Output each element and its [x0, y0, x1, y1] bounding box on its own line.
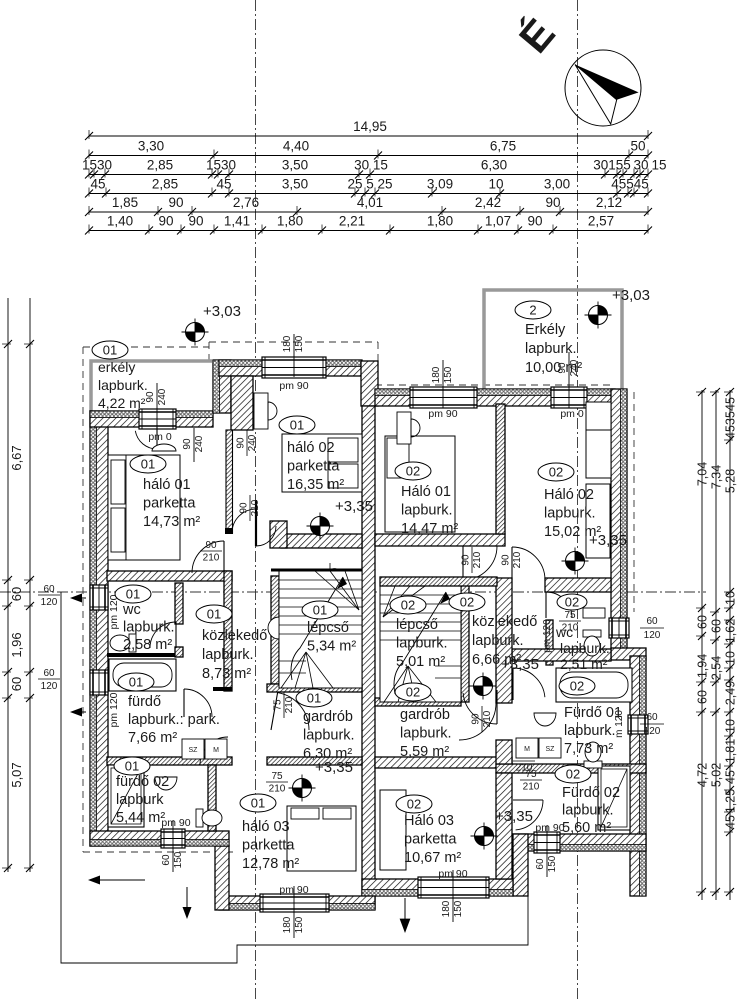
svg-text:45: 45	[724, 425, 738, 439]
svg-text:háló 03: háló 03	[242, 819, 290, 835]
svg-text:5,02: 5,02	[710, 763, 724, 787]
svg-text:01: 01	[125, 759, 139, 774]
svg-text:14,95: 14,95	[353, 119, 387, 134]
svg-text:parketta: parketta	[404, 832, 457, 848]
svg-text:6,30: 6,30	[481, 158, 507, 173]
svg-text:150: 150	[294, 916, 305, 933]
svg-text:2,42: 2,42	[475, 195, 501, 210]
svg-text:16,35 m²: 16,35 m²	[287, 477, 344, 493]
svg-text:75: 75	[271, 771, 283, 782]
svg-text:60: 60	[646, 616, 658, 627]
svg-text:2,49: 2,49	[724, 681, 738, 705]
svg-text:120: 120	[644, 726, 661, 737]
svg-text:240: 240	[247, 434, 258, 451]
svg-text:60: 60	[43, 668, 55, 679]
svg-text:90: 90	[239, 502, 250, 514]
svg-text:pm 0: pm 0	[148, 431, 172, 443]
svg-text:150: 150	[547, 855, 558, 872]
svg-text:lapburk.: lapburk.	[396, 636, 448, 652]
svg-text:közlekedő: közlekedő	[472, 614, 537, 630]
svg-text:közlekedő: közlekedő	[202, 628, 267, 644]
svg-text:10: 10	[724, 719, 738, 733]
svg-text:2,85: 2,85	[152, 177, 178, 192]
svg-text:lapburk.: park.: lapburk.: park.	[128, 712, 220, 728]
svg-text:1,85: 1,85	[112, 195, 138, 210]
svg-text:2: 2	[529, 303, 536, 318]
svg-text:01: 01	[207, 607, 221, 622]
svg-text:1,81: 1,81	[724, 739, 738, 763]
svg-text:lapburk.: lapburk.	[564, 723, 616, 739]
svg-text:+3,35: +3,35	[589, 532, 627, 549]
svg-text:150: 150	[294, 335, 305, 352]
svg-text:3,30: 3,30	[138, 139, 164, 154]
svg-text:2,57: 2,57	[588, 214, 614, 229]
svg-text:01: 01	[126, 587, 140, 602]
svg-text:fürdő: fürdő	[128, 694, 161, 710]
svg-text:150: 150	[453, 900, 464, 917]
svg-text:90: 90	[158, 214, 173, 229]
svg-text:150: 150	[443, 366, 454, 383]
svg-text:lapburk.: lapburk.	[98, 377, 148, 393]
svg-text:háló 01: háló 01	[143, 477, 191, 493]
svg-text:1,80: 1,80	[427, 214, 453, 229]
svg-text:parketta: parketta	[242, 838, 295, 854]
svg-text:2,85: 2,85	[147, 158, 173, 173]
svg-text:lapburk.: lapburk.	[562, 803, 614, 819]
svg-text:lépcső: lépcső	[307, 620, 349, 636]
svg-text:45: 45	[724, 770, 738, 784]
svg-text:parketta: parketta	[143, 496, 196, 512]
svg-text:120: 120	[41, 681, 58, 692]
svg-text:02: 02	[565, 595, 579, 610]
svg-text:90: 90	[205, 540, 217, 551]
svg-text:lapburk.: lapburk.	[123, 620, 175, 636]
svg-text:3,09: 3,09	[427, 177, 453, 192]
svg-text:02: 02	[401, 598, 415, 613]
svg-text:1,94: 1,94	[696, 654, 710, 678]
svg-text:3,00: 3,00	[544, 177, 570, 192]
svg-text:+3,03: +3,03	[203, 303, 241, 320]
svg-text:1,96: 1,96	[9, 632, 24, 657]
svg-text:60: 60	[161, 854, 172, 866]
svg-text:4,01: 4,01	[357, 195, 383, 210]
svg-text:01: 01	[251, 796, 265, 811]
svg-text:lapburk: lapburk	[116, 792, 164, 808]
svg-text:pm 90: pm 90	[161, 817, 190, 829]
svg-text:háló 02: háló 02	[287, 440, 335, 456]
svg-text:02: 02	[406, 685, 420, 700]
svg-text:1,41: 1,41	[224, 214, 250, 229]
svg-text:75: 75	[273, 699, 284, 711]
svg-text:01: 01	[141, 457, 155, 472]
svg-text:SZ: SZ	[546, 746, 556, 753]
svg-text:25 5 25: 25 5 25	[347, 177, 392, 192]
svg-text:14,47 m²: 14,47 m²	[401, 521, 458, 537]
svg-text:lapburk.: lapburk.	[202, 647, 254, 663]
svg-text:60: 60	[696, 615, 710, 629]
svg-text:5,44 m²: 5,44 m²	[116, 810, 165, 826]
svg-text:45: 45	[724, 815, 738, 829]
svg-text:10: 10	[724, 651, 738, 665]
svg-text:01: 01	[313, 603, 327, 618]
svg-text:120: 120	[41, 597, 58, 608]
svg-text:90: 90	[236, 437, 247, 449]
svg-text:60: 60	[710, 619, 724, 633]
svg-text:7,66 m²: 7,66 m²	[128, 730, 177, 746]
svg-text:5,01 m²: 5,01 m²	[396, 654, 445, 670]
svg-text:lapburk.: lapburk.	[400, 726, 452, 742]
svg-text:01: 01	[307, 691, 321, 706]
svg-text:2,51 m²: 2,51 m²	[560, 656, 608, 672]
svg-text:60: 60	[646, 712, 658, 723]
svg-text:1,25: 1,25	[724, 789, 738, 813]
svg-text:35: 35	[724, 411, 738, 425]
svg-text:90: 90	[188, 214, 203, 229]
svg-text:6,67: 6,67	[9, 445, 24, 470]
svg-text:180: 180	[282, 916, 293, 933]
svg-text:1,40: 1,40	[107, 214, 133, 229]
svg-text:2,21: 2,21	[339, 214, 365, 229]
svg-text:6,75: 6,75	[490, 139, 516, 154]
svg-text:wc: wc	[555, 624, 573, 640]
svg-text:+3,35: +3,35	[335, 498, 373, 515]
svg-text:210: 210	[269, 784, 286, 795]
svg-text:240: 240	[194, 435, 205, 452]
svg-text:90: 90	[182, 438, 193, 450]
svg-text:180: 180	[431, 366, 442, 383]
svg-text:lapburk.: lapburk.	[472, 633, 524, 649]
svg-text:pm 120: pm 120	[108, 692, 120, 727]
svg-text:gardrób: gardrób	[400, 707, 450, 723]
svg-text:15: 15	[651, 158, 666, 173]
svg-text:210: 210	[250, 499, 261, 516]
svg-text:02: 02	[407, 797, 421, 812]
svg-text:30155: 30155	[593, 158, 631, 173]
svg-text:75: 75	[564, 610, 576, 621]
svg-text:Háló 01: Háló 01	[401, 484, 451, 500]
svg-text:60: 60	[535, 858, 546, 870]
svg-text:210: 210	[472, 551, 483, 568]
svg-text:1,62: 1,62	[724, 619, 738, 643]
svg-text:5,34 m²: 5,34 m²	[307, 639, 356, 655]
svg-text:lépcső: lépcső	[396, 617, 438, 633]
svg-text:10,00 m²: 10,00 m²	[525, 360, 582, 376]
svg-text:01: 01	[129, 675, 143, 690]
svg-text:lapburk.: lapburk.	[401, 503, 453, 519]
svg-text:2,54: 2,54	[710, 656, 724, 680]
svg-text:12,78 m²: 12,78 m²	[242, 856, 299, 872]
svg-text:3,50: 3,50	[282, 158, 308, 173]
svg-text:Háló 03: Háló 03	[404, 813, 454, 829]
svg-text:02: 02	[566, 767, 580, 782]
svg-text:lapburk.: lapburk.	[544, 506, 596, 522]
svg-text:60: 60	[9, 587, 24, 601]
svg-text:180: 180	[441, 900, 452, 917]
svg-text:90: 90	[501, 554, 512, 566]
svg-text:210: 210	[512, 551, 523, 568]
svg-text:60: 60	[696, 690, 710, 704]
svg-text:+3,35: +3,35	[501, 656, 539, 673]
svg-text:210: 210	[523, 782, 540, 793]
svg-text:180: 180	[282, 335, 293, 352]
svg-text:210: 210	[482, 710, 493, 727]
svg-text:pm 90: pm 90	[428, 408, 457, 420]
svg-text:lapburk.: lapburk.	[525, 341, 577, 357]
svg-text:210: 210	[516, 763, 533, 774]
svg-text:210: 210	[284, 696, 295, 713]
svg-text:30: 30	[633, 158, 648, 173]
svg-text:pm 90: pm 90	[279, 884, 308, 896]
svg-text:10: 10	[724, 591, 738, 605]
svg-text:wc: wc	[122, 602, 141, 618]
svg-text:M: M	[213, 747, 219, 754]
svg-text:60: 60	[43, 584, 55, 595]
svg-text:M: M	[524, 746, 530, 753]
svg-text:02: 02	[460, 595, 474, 610]
svg-text:90: 90	[168, 195, 183, 210]
svg-text:5,28: 5,28	[724, 469, 738, 493]
svg-text:240: 240	[157, 388, 168, 405]
svg-text:5,59 m²: 5,59 m²	[400, 744, 449, 760]
svg-text:pm 90: pm 90	[279, 380, 308, 392]
svg-text:7,34: 7,34	[710, 465, 724, 489]
svg-text:Erkély: Erkély	[525, 322, 566, 338]
svg-text:4,22 m²: 4,22 m²	[98, 395, 146, 411]
svg-text:90: 90	[471, 713, 482, 725]
svg-text:SZ: SZ	[189, 747, 199, 754]
svg-text:90: 90	[461, 554, 472, 566]
svg-text:120: 120	[644, 630, 661, 641]
svg-text:1530: 1530	[82, 158, 112, 173]
svg-text:2,76: 2,76	[233, 195, 259, 210]
svg-text:02: 02	[549, 465, 563, 480]
svg-text:fürdő 02: fürdő 02	[116, 774, 169, 790]
svg-text:7,04: 7,04	[696, 462, 710, 486]
svg-text:14,73 m²: 14,73 m²	[143, 514, 200, 530]
svg-text:90: 90	[545, 195, 560, 210]
svg-text:7,73 m²: 7,73 m²	[564, 741, 613, 757]
svg-text:2,12: 2,12	[596, 195, 622, 210]
svg-text:pm 90: pm 90	[438, 868, 467, 880]
svg-text:pm 120: pm 120	[542, 619, 553, 653]
svg-text:+3,03: +3,03	[612, 287, 650, 304]
svg-text:60: 60	[9, 677, 24, 691]
svg-text:pm 90: pm 90	[535, 822, 564, 834]
svg-text:erkély: erkély	[98, 359, 135, 375]
svg-text:10,67 m²: 10,67 m²	[404, 850, 461, 866]
svg-text:lapburk.: lapburk.	[560, 640, 610, 656]
svg-text:4,40: 4,40	[283, 139, 309, 154]
svg-text:45: 45	[724, 397, 738, 411]
svg-text:Fürdő 01: Fürdő 01	[564, 705, 622, 721]
svg-text:02: 02	[406, 464, 420, 479]
svg-text:gardrób: gardrób	[303, 709, 353, 725]
svg-text:+3,35: +3,35	[315, 759, 353, 776]
svg-text:2,58 m²: 2,58 m²	[123, 637, 172, 653]
svg-text:Háló 02: Háló 02	[544, 487, 594, 503]
svg-text:parketta: parketta	[287, 459, 340, 475]
svg-text:4,72: 4,72	[696, 763, 710, 787]
svg-text:lapburk.: lapburk.	[303, 728, 355, 744]
svg-text:1,07: 1,07	[485, 214, 511, 229]
svg-text:01: 01	[290, 418, 304, 433]
svg-text:10: 10	[488, 177, 503, 192]
svg-text:1530: 1530	[206, 158, 236, 173]
svg-text:Fürdő 02: Fürdő 02	[562, 785, 620, 801]
svg-text:pm 0: pm 0	[560, 408, 584, 420]
svg-text:02: 02	[570, 679, 584, 694]
svg-text:5,07: 5,07	[9, 762, 24, 787]
svg-text:1,80: 1,80	[277, 214, 303, 229]
svg-text:+3,35: +3,35	[495, 808, 533, 825]
svg-text:3,50: 3,50	[282, 177, 308, 192]
svg-text:8,73 m²: 8,73 m²	[202, 666, 251, 682]
svg-text:150: 150	[173, 851, 184, 868]
svg-text:210: 210	[203, 553, 220, 564]
svg-text:90: 90	[527, 214, 542, 229]
svg-text:01: 01	[103, 343, 117, 358]
svg-text:5,60 m²: 5,60 m²	[562, 820, 611, 836]
